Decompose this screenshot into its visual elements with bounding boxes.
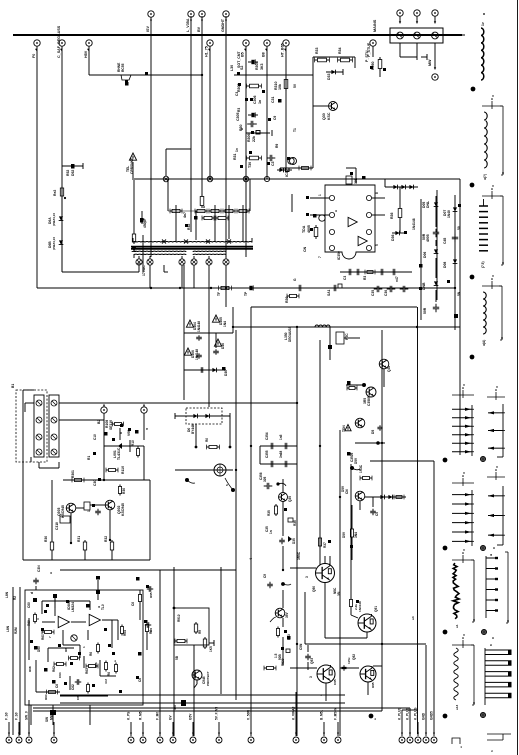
svg-text:R6: R6 (64, 648, 68, 652)
svg-text:F_S0: F_S0 (15, 712, 19, 720)
svg-text:K_VIRAJ: K_VIRAJ (292, 706, 296, 720)
svg-text:TDA: TDA (302, 225, 306, 233)
svg-text:450pF: 450pF (143, 218, 147, 228)
svg-text:GND5: GND5 (430, 711, 434, 720)
svg-text:SOT_CNT: SOT_CNT (237, 51, 241, 68)
svg-text:1n5: 1n5 (279, 434, 283, 440)
svg-text:GND: GND (422, 712, 426, 720)
svg-text:35V: 35V (285, 611, 289, 618)
svg-text:C305: C305 (236, 112, 240, 121)
svg-text:R3: R3 (237, 108, 241, 112)
svg-text:(PBZ4,10: (PBZ4,10 (52, 237, 56, 250)
svg-text:1: 1 (87, 510, 91, 512)
svg-text:Q90: Q90 (312, 586, 316, 592)
svg-text:R64: R64 (123, 630, 127, 636)
svg-text:R33: R33 (315, 47, 319, 54)
svg-text:4n7: 4n7 (183, 212, 187, 218)
svg-text:R62: R62 (52, 666, 56, 672)
svg-text:C9: C9 (273, 116, 277, 120)
svg-text:4: 4 (249, 558, 253, 560)
svg-text:R35: R35 (267, 510, 271, 516)
svg-text:MW: MW (50, 714, 54, 720)
svg-text:C62: C62 (71, 684, 75, 690)
svg-text:a: a (202, 206, 206, 208)
svg-text:GNDHT: GNDHT (221, 18, 225, 32)
svg-text:C3: C3 (343, 276, 347, 280)
svg-text:u: u (334, 210, 338, 212)
svg-text:L30: L30 (230, 65, 234, 71)
svg-text:1v: 1v (481, 22, 485, 26)
svg-text:C354: C354 (265, 432, 269, 440)
svg-text:D60: D60 (37, 646, 41, 652)
svg-text:C64: C64 (58, 672, 62, 678)
svg-text:R52: R52 (66, 170, 70, 176)
svg-text:C5: C5 (375, 512, 379, 516)
svg-text:IC30: IC30 (285, 169, 289, 177)
svg-text:R1: R1 (87, 456, 91, 460)
svg-text:3: 3 (305, 576, 309, 578)
svg-text:C306: C306 (253, 95, 257, 104)
svg-text:H: H (489, 554, 493, 556)
svg-text:C45: C45 (443, 238, 447, 244)
svg-text:1: 1 (82, 646, 86, 648)
svg-text:u: u (113, 660, 117, 662)
svg-text:KSC: KSC (327, 112, 331, 120)
svg-text:SA1: SA1 (327, 289, 331, 296)
svg-text:F_S0: F_S0 (5, 712, 9, 720)
svg-text:V_50M: V_50M (247, 710, 251, 720)
svg-text:R31: R31 (77, 536, 81, 542)
svg-text:T1: T1 (293, 128, 297, 132)
svg-text:50R: 50R (423, 307, 427, 314)
svg-text:SW_0: SW_0 (25, 711, 29, 720)
svg-text:C30: C30 (93, 480, 97, 486)
svg-text:MW: MW (428, 59, 432, 66)
svg-text:u(?): u(?) (483, 174, 487, 180)
svg-text:R30: R30 (44, 536, 48, 542)
svg-text:C6: C6 (55, 684, 59, 688)
svg-text:C35: C35 (371, 290, 375, 296)
svg-text:D35: D35 (292, 538, 296, 544)
svg-text:n47: n47 (395, 276, 399, 282)
svg-text:C9: C9 (149, 628, 153, 632)
svg-text:C3N: C3N (37, 565, 41, 572)
svg-text:305: 305 (263, 476, 267, 482)
svg-text:PROTECT: PROTECT (206, 671, 210, 686)
svg-text:R9: R9 (198, 630, 202, 634)
svg-text:R37: R37 (323, 542, 327, 548)
svg-text:MAINS: MAINS (373, 19, 377, 32)
svg-text:T30: T30 (248, 162, 252, 168)
svg-text:C5N: C5N (299, 643, 303, 650)
svg-text:L6N: L6N (5, 591, 9, 598)
svg-text:C3: C3 (271, 161, 275, 166)
svg-text:R30: R30 (285, 296, 289, 303)
svg-text:C9: C9 (263, 574, 267, 578)
svg-text:n: n (145, 428, 149, 430)
svg-text:R10: R10 (131, 440, 135, 446)
svg-text:360: 360 (173, 705, 177, 710)
svg-text:C_SAF_DEGAUSS: C_SAF_DEGAUSS (57, 25, 61, 58)
svg-text:3N4: 3N4 (354, 532, 358, 538)
svg-text:Q35: Q35 (387, 366, 391, 372)
svg-text:B8: B8 (262, 52, 266, 57)
svg-text:8: 8 (119, 432, 123, 434)
svg-text:C6: C6 (131, 602, 135, 606)
svg-text:1n: 1n (269, 530, 273, 534)
svg-text:D08: D08 (443, 262, 447, 268)
svg-text:H5V: H5V (84, 50, 88, 58)
svg-text:G5V: G5V (189, 713, 193, 720)
svg-text:R2M: R2M (14, 627, 18, 634)
svg-text:K_PS: K_PS (127, 712, 131, 720)
svg-text:7: 7 (318, 256, 322, 258)
svg-text:R32: R32 (104, 536, 108, 542)
svg-text:HT_B65: HT_B65 (281, 43, 285, 57)
svg-text:3: 3 (309, 676, 313, 678)
svg-text:L6N: L6N (6, 625, 10, 632)
svg-text:1K5: 1K5 (209, 646, 213, 652)
svg-text:H1_75: H1_75 (205, 46, 209, 57)
svg-text:1n: 1n (235, 148, 239, 152)
svg-text:R30: R30 (239, 124, 243, 131)
svg-text:(7.5): (7.5) (481, 262, 485, 269)
svg-text:DEGAUSS: DEGAUSS (288, 326, 292, 342)
svg-text:R3: R3 (363, 276, 367, 280)
svg-text:L_V35A: L_V35A (186, 18, 190, 32)
svg-text:R67: R67 (44, 694, 48, 700)
svg-text:F_M50V: F_M50V (334, 707, 338, 720)
svg-text:Q30: Q30 (322, 113, 326, 120)
svg-text:4n7: 4n7 (104, 678, 108, 684)
svg-text:R36: R36 (390, 212, 394, 219)
svg-text:R304: R304 (255, 61, 259, 70)
svg-text:C355: C355 (265, 450, 269, 458)
svg-text:R31: R31 (233, 153, 237, 160)
svg-text:R0: R0 (205, 438, 209, 442)
svg-text:1N4148: 1N4148 (197, 321, 201, 332)
svg-text:u(A): u(A) (482, 340, 486, 346)
svg-text:CN: CN (345, 489, 349, 494)
svg-text:22k: 22k (252, 136, 256, 142)
svg-text:u: u (373, 718, 377, 720)
svg-text:u3: u3 (411, 616, 415, 620)
svg-text:R301: R301 (71, 470, 75, 478)
svg-text:LM324: LM324 (71, 602, 75, 612)
svg-text:5V_F_V3: 5V_F_V3 (215, 707, 219, 720)
svg-text:KSC945: KSC945 (121, 503, 125, 516)
svg-text:R9: R9 (275, 144, 279, 148)
svg-text:C3505: C3505 (367, 396, 371, 406)
svg-text:5: 5 (375, 244, 379, 246)
svg-text:K_PLUS: K_PLUS (398, 708, 402, 720)
svg-text:SW: SW (45, 717, 49, 722)
svg-text:D5V: D5V (354, 457, 358, 464)
svg-text:Q35: Q35 (288, 496, 292, 502)
svg-text:10k: 10k (278, 84, 282, 90)
svg-text:G: G (293, 278, 297, 281)
svg-text:1N4: 1N4 (223, 321, 227, 327)
svg-text:R32: R32 (187, 224, 191, 230)
svg-text:P_STU: P_STU (365, 50, 369, 62)
svg-text:Re2: Re2 (53, 190, 57, 196)
svg-text:IC350: IC350 (337, 251, 341, 260)
svg-text:C310: C310 (55, 522, 59, 530)
svg-text:d: d (30, 592, 34, 594)
svg-text:PTC: PTC (345, 333, 349, 340)
svg-text:R6: R6 (89, 652, 93, 656)
svg-text:7: 7 (48, 636, 52, 638)
svg-text:1N40: 1N40 (447, 210, 451, 218)
svg-text:R30: R30 (122, 488, 126, 494)
svg-text:C6: C6 (138, 678, 142, 682)
svg-text:D5V: D5V (342, 531, 346, 538)
svg-text:DNB: DNB (422, 282, 426, 290)
svg-text:R34: R34 (338, 47, 342, 54)
svg-text:R95: R95 (149, 592, 153, 598)
svg-text:1N4148: 1N4148 (412, 218, 416, 230)
svg-text:TF: TF (217, 292, 221, 296)
svg-text:17VAC: 17VAC (142, 265, 146, 276)
svg-text:C3: C3 (235, 92, 239, 96)
svg-text:8: 8 (489, 644, 493, 646)
svg-text:ISV: ISV (146, 26, 150, 32)
svg-text:R110: R110 (121, 466, 125, 474)
svg-text:u13: u13 (455, 704, 459, 710)
svg-text:K_PLUS: K_PLUS (406, 708, 410, 720)
svg-text:F_M0: F_M0 (156, 712, 160, 720)
svg-text:D95: D95 (371, 682, 375, 688)
svg-text:C36: C36 (384, 290, 388, 296)
svg-text:CN: CN (303, 246, 307, 252)
svg-text:C31: C31 (271, 96, 275, 103)
svg-text:BV: BV (197, 26, 201, 32)
svg-text:1: 1 (318, 194, 322, 196)
svg-text:R36: R36 (293, 520, 297, 526)
svg-text:D36: D36 (391, 234, 395, 241)
svg-text:D30: D30 (221, 343, 225, 349)
svg-text:TL431C: TL431C (117, 447, 121, 460)
svg-text:Q91: Q91 (374, 606, 378, 612)
svg-text:Q92: Q92 (352, 654, 356, 660)
svg-text:1N4148: 1N4148 (195, 349, 199, 360)
svg-text:1n: 1n (258, 100, 262, 104)
svg-text:R306: R306 (247, 133, 251, 142)
svg-text:s: s (225, 484, 229, 486)
svg-text:RC55: RC55 (121, 63, 125, 72)
svg-text:35L: 35L (337, 590, 341, 596)
svg-text:u: u (459, 746, 463, 748)
svg-text:R61: R61 (41, 634, 45, 640)
svg-text:u1: u1 (455, 624, 459, 628)
svg-text:u: u (49, 572, 53, 574)
svg-text:C10: C10 (93, 434, 97, 440)
svg-text:B_M51: B_M51 (320, 710, 324, 720)
svg-text:R6: R6 (107, 672, 111, 676)
svg-text:3K3: 3K3 (260, 63, 264, 70)
svg-text:50: 50 (457, 226, 461, 230)
svg-text:Q93: Q93 (310, 658, 314, 664)
svg-text:DNL: DNL (426, 201, 430, 208)
svg-text:D06: D06 (423, 252, 427, 258)
svg-text:TL0: TL0 (101, 604, 105, 610)
svg-text:5N: 5N (457, 291, 461, 296)
svg-text:R910: R910 (177, 614, 181, 622)
svg-text:R_M5: R_M5 (139, 711, 143, 720)
svg-text:D52: D52 (71, 170, 75, 176)
svg-text:3R5C: 3R5C (297, 551, 301, 560)
svg-text:R2: R2 (13, 596, 17, 600)
svg-text:1N4148: 1N4148 (358, 601, 362, 612)
svg-text:1R3C: 1R3C (359, 464, 363, 473)
svg-text:4005: 4005 (426, 234, 430, 242)
svg-text:3n68: 3n68 (279, 451, 283, 458)
svg-text:R68: R68 (28, 666, 32, 672)
svg-text:B5: B5 (241, 52, 245, 57)
svg-text:(PBZ4,10: (PBZ4,10 (52, 213, 56, 226)
svg-text:115c: 115c (347, 657, 351, 664)
svg-text:C60: C60 (27, 602, 31, 608)
svg-text:5B: 5B (175, 655, 179, 660)
svg-text:C95: C95 (333, 679, 337, 685)
svg-text:F0: F0 (32, 54, 36, 58)
svg-text:B1: B1 (11, 384, 15, 388)
svg-text:8: 8 (375, 192, 379, 194)
svg-text:R63: R63 (85, 668, 89, 674)
svg-text:D5: D5 (371, 430, 375, 434)
svg-text:K_PLUS: K_PLUS (414, 708, 418, 720)
svg-text:D30: D30 (224, 370, 228, 376)
svg-text:D33: D33 (327, 73, 331, 80)
svg-text:B2: B2 (97, 420, 101, 424)
svg-text:BY448: BY448 (191, 424, 195, 434)
